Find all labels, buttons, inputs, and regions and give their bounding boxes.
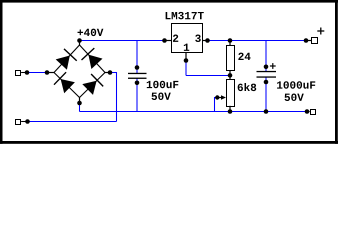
wire U1 pin 1 to R1/R2 node <box>185 61 187 76</box>
C1 voltage label 50V <box>152 93 157 100</box>
C1 value label 100uF <box>147 81 152 88</box>
bridge pin node AC-right <box>105 72 110 74</box>
U1 pin 3 (output) stub <box>202 40 208 42</box>
wire U1 pin 3 output rail to + terminal <box>208 40 305 42</box>
U1 pin number 2 <box>173 35 178 42</box>
bridge pin node DC- (bottom) <box>79 98 81 104</box>
terminal J3 (+ output) <box>304 38 309 43</box>
wire R2 wiper to ground rail <box>214 97 217 99</box>
resistor R2 bottom stub <box>229 106 231 112</box>
C2 value label 1000uF <box>277 81 282 88</box>
U1 pin number 3 <box>195 35 201 42</box>
diode D2 (AC-right to DC+) <box>80 45 106 73</box>
junction at U1 pin 2 <box>162 38 167 43</box>
junction node R1/R2/adj <box>228 73 233 78</box>
terminal J4 (- output) <box>305 109 310 114</box>
wire ground rail (DC-) <box>79 103 81 112</box>
wire capacitor C2 lead to ground rail <box>265 77 267 112</box>
wire capacitor C2 lead from output rail <box>265 41 267 72</box>
junction R2 bottom on ground rail <box>228 109 233 114</box>
resistor R1 body <box>226 45 235 71</box>
junction C2 bottom on ground rail <box>264 109 269 114</box>
wire J1 to bridge left (AC input a) <box>27 72 47 74</box>
U1 pin 1 (adjust) stub <box>185 52 187 61</box>
diode D4 (DC- to AC-right) <box>80 73 106 98</box>
terminal J1 (AC input a) <box>15 70 21 76</box>
bridge pin node DC+ (top) <box>79 41 81 46</box>
capacitor C2 1000uF plates <box>264 65 269 70</box>
potentiometer R2 body <box>226 79 235 107</box>
regulator U1 name label LM317T <box>166 12 171 19</box>
capacitor C1 100uF plates <box>135 65 140 70</box>
net label +40V <box>78 30 84 36</box>
wire capacitor C1 lead to ground rail <box>136 78 138 111</box>
R1 value label 24 <box>238 53 243 60</box>
R2 value label 6k8 <box>238 84 243 91</box>
resistor R1 top stub <box>229 41 231 46</box>
junction R1 top on output rail <box>228 38 233 43</box>
diode D1 (AC-left to DC+) <box>54 45 80 73</box>
terminal J2 (AC input b) <box>15 119 21 125</box>
C2 voltage label 50V <box>285 94 290 101</box>
wire capacitor C1 lead from +40V rail <box>136 41 138 74</box>
resistor R1 bottom stub <box>229 70 231 76</box>
regulator U1 LM317T body <box>171 23 203 53</box>
C2 polarity mark + <box>270 65 276 67</box>
R2 wiper arrow <box>215 95 219 99</box>
wire J2 to bridge right (AC input b) <box>28 121 117 123</box>
diode D3 (DC- to AC-left) <box>54 73 80 98</box>
junction at U1 pin 3 <box>205 38 210 43</box>
U1 pin number 1 <box>184 44 189 51</box>
potentiometer R2 top stub <box>229 76 231 80</box>
wire +40V rail: bridge DC+ to U1 pin 2 <box>80 40 165 42</box>
bridge pin node AC-left <box>47 72 54 74</box>
U1 pin 2 (input) stub <box>165 40 172 42</box>
output polarity label + <box>317 30 324 32</box>
